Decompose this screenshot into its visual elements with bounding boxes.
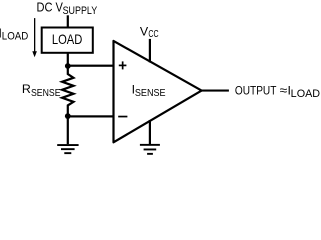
svg-text:DC V: DC V	[37, 1, 64, 15]
ground symbol G2	[140, 144, 160, 155]
svg-text:LOAD: LOAD	[52, 32, 82, 47]
svg-text:LOAD: LOAD	[291, 88, 321, 100]
output label OUTPUT = ILOAD	[235, 84, 321, 100]
svg-text:OUTPUT: OUTPUT	[235, 84, 277, 98]
svg-text:≈: ≈	[280, 84, 288, 98]
current label ILOAD	[0, 25, 29, 42]
wire: node A to op-amp + input	[68, 65, 115, 67]
power label VCC	[140, 25, 159, 41]
svg-text:CC: CC	[148, 29, 159, 40]
svg-text:SENSE: SENSE	[135, 88, 166, 99]
resistor RSENSE	[62, 66, 73, 117]
op-amp U1 ISENSE	[114, 41, 202, 142]
wire: node B to ground	[67, 116, 69, 144]
svg-text:SENSE: SENSE	[31, 88, 61, 99]
pin label + (non-inverting input)	[119, 61, 127, 69]
pin label - (inverting input)	[118, 116, 127, 118]
wire: op-amp output	[200, 90, 229, 92]
load block LOAD	[42, 28, 93, 53]
junction node A (top of RSENSE)	[65, 63, 71, 69]
ground symbol G1	[57, 144, 78, 154]
current arrow ILOAD	[32, 18, 37, 57]
svg-text:SUPPLY: SUPPLY	[63, 5, 98, 17]
wire: VCC to op-amp top	[149, 39, 151, 63]
net label DC VSUPPLY	[37, 1, 98, 17]
label ISENSE (inside op-amp)	[132, 83, 166, 99]
value label RSENSE	[22, 82, 61, 99]
svg-text:R: R	[22, 82, 31, 96]
wire: LOAD bottom to node A	[67, 52, 69, 67]
svg-text:LOAD: LOAD	[2, 30, 29, 42]
wire: op-amp bottom to ground	[149, 120, 151, 144]
wire: VSUPPLY to LOAD top	[67, 15, 69, 27]
junction node B (bottom of RSENSE)	[65, 113, 71, 119]
wire: node B to op-amp - input	[68, 115, 115, 117]
